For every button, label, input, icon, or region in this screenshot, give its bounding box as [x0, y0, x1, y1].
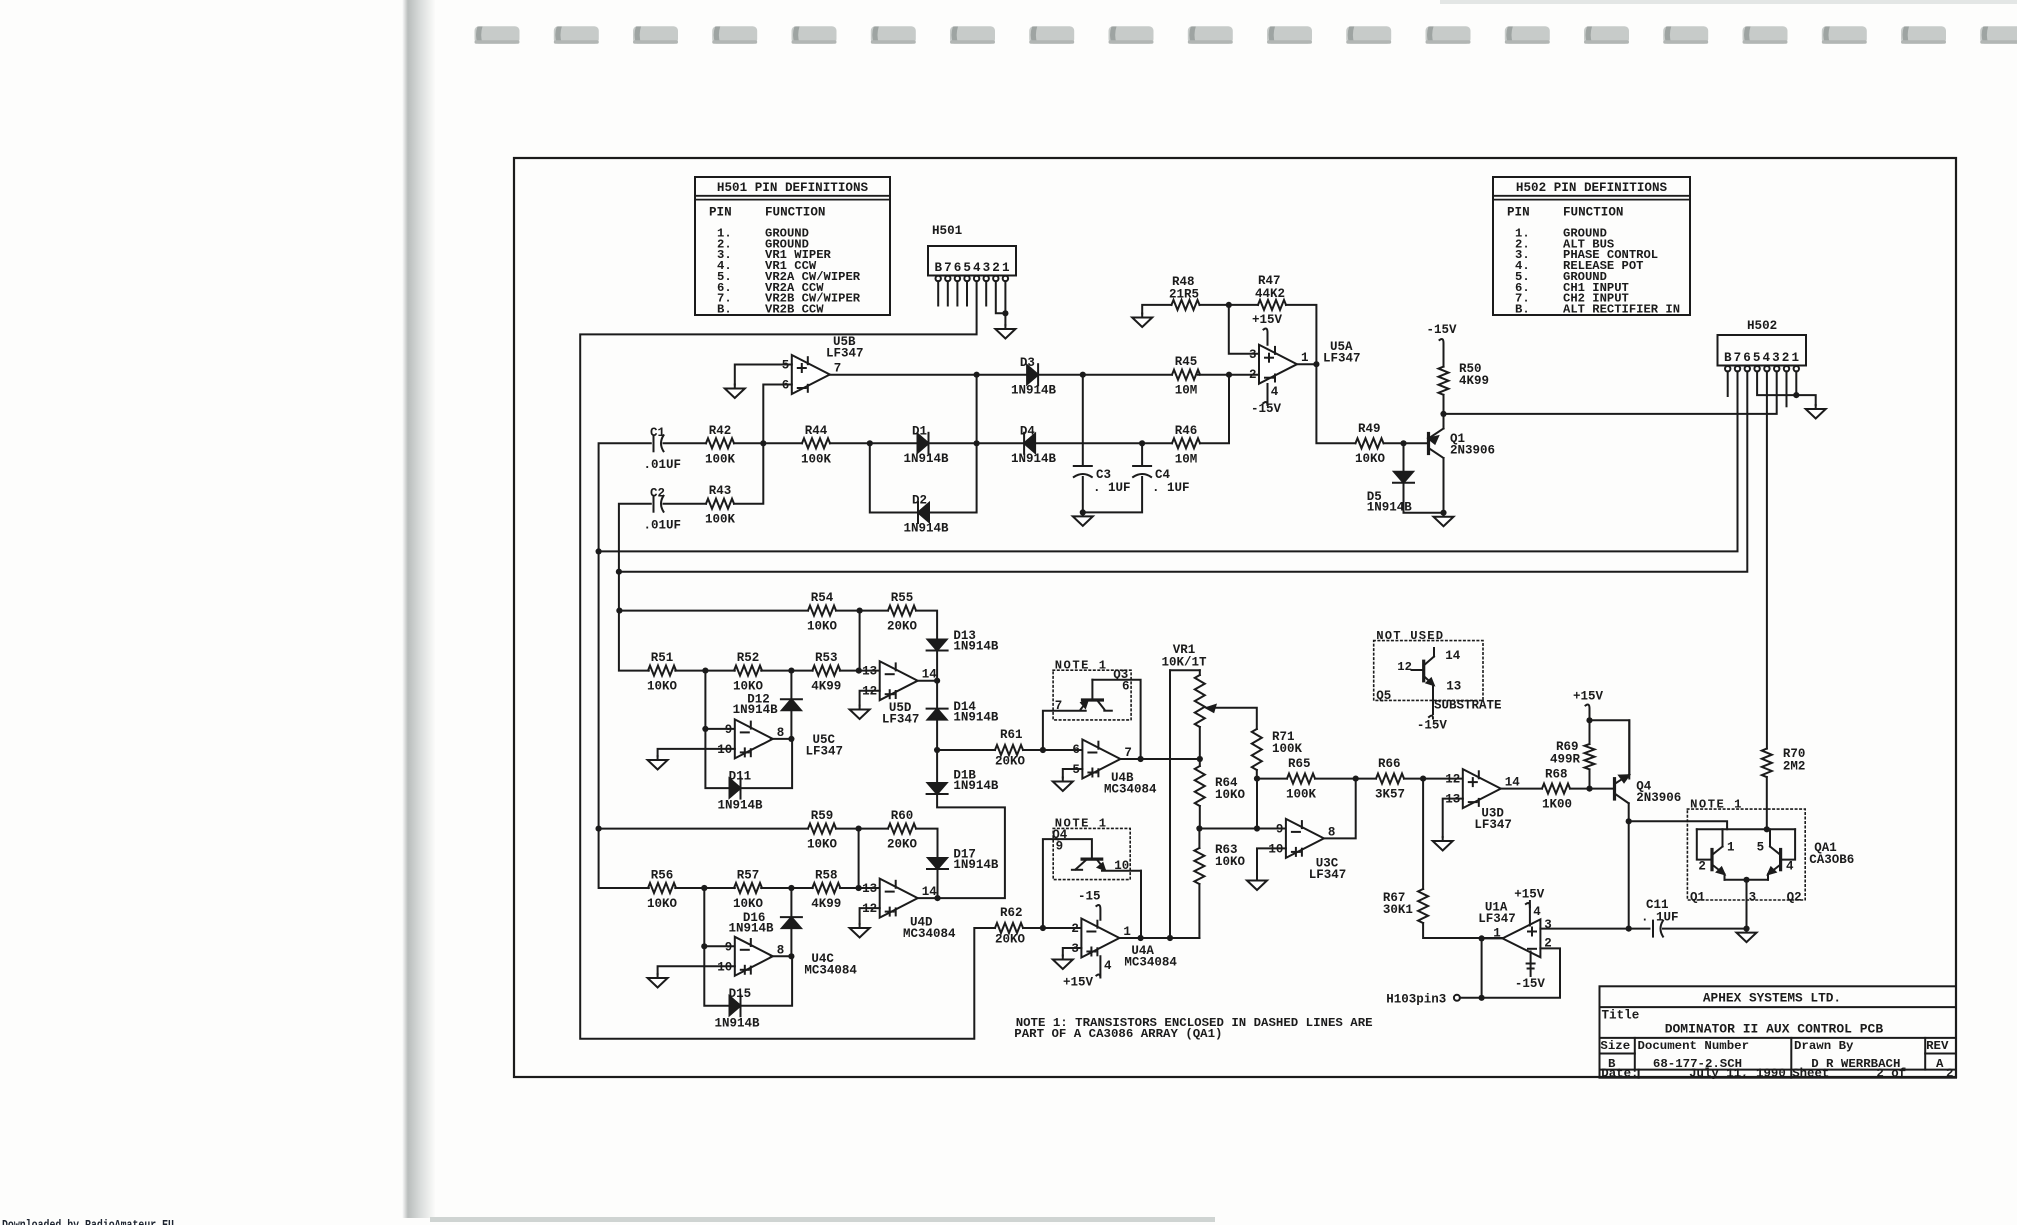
svg-text:3: 3 [1544, 918, 1552, 932]
wire H502 pin 4 down to R70 [1766, 371, 1768, 748]
wire C11 to QA1 pin3 [1663, 928, 1747, 930]
wire junction down to pin13 row [858, 829, 860, 888]
svg-text:1N914B: 1N914B [729, 922, 775, 936]
svg-text:2 of: 2 of [1876, 1066, 1906, 1080]
wire H502 pin 5 to ground [1757, 371, 1816, 405]
wire QA1 top rail [1697, 828, 1795, 830]
wire D12 to U5C output [790, 711, 792, 739]
svg-text:100K: 100K [801, 452, 832, 466]
svg-text:2: 2 [1249, 368, 1257, 382]
svg-text:10KO: 10KO [1215, 855, 1246, 869]
ground H502 [1806, 405, 1826, 419]
wire R48 to R47 [1200, 304, 1259, 306]
diode D11 1N914B [718, 770, 764, 813]
spiral binder holes [475, 26, 2017, 44]
svg-text:-15V: -15V [1427, 323, 1458, 337]
wire D18 loop to U4D output [937, 794, 1005, 898]
wire H501 pin 4 feedback bus to R62 [580, 281, 995, 1039]
wire R66 node down to R67 [1422, 779, 1424, 889]
junction R57/R58 [788, 885, 794, 891]
junction R48/R47/pin3 [1226, 302, 1232, 308]
diode D14 1N914B [927, 700, 999, 725]
ground H501 [995, 325, 1015, 339]
wire D17 to U4D output [937, 869, 939, 898]
wire to U5A pin3 [1229, 305, 1259, 354]
svg-text:LF347: LF347 [1474, 818, 1512, 832]
wire C1 to R42 [664, 442, 707, 444]
svg-text:1K00: 1K00 [1542, 798, 1572, 812]
junction U5C pin9 [702, 726, 708, 732]
wire U4C pin9 [704, 945, 735, 947]
transistor Q5 (array, not used) [1412, 648, 1435, 719]
diode D13 1N914B [927, 629, 999, 654]
op-amp U4C MC34084 [717, 937, 857, 978]
wire U1A pin3 to C11 [1540, 928, 1649, 930]
junction R49/D5 [1400, 440, 1406, 446]
wire left vertical bus C1-R56 [599, 443, 651, 888]
op-amp U4A MC34084 [1071, 919, 1177, 970]
resistor R42 [705, 424, 736, 467]
svg-text:4: 4 [1533, 905, 1541, 919]
svg-text:2M2: 2M2 [1783, 760, 1806, 774]
junction R54/R55 [857, 608, 863, 614]
op-amp U5B LF347 [782, 335, 864, 394]
junction U4A out/Q4 array [1138, 935, 1144, 941]
svg-text:14: 14 [1445, 649, 1461, 663]
svg-text:30K1: 30K1 [1383, 903, 1413, 917]
resistor R71 100K [1252, 729, 1303, 770]
wire QA1 pin3 down [1746, 880, 1748, 929]
op-amp U1A LF347 [1478, 888, 1552, 992]
svg-text:R62: R62 [1000, 906, 1023, 920]
svg-text:LF347: LF347 [882, 713, 920, 727]
ground U5D pin12 [850, 706, 870, 720]
svg-text:R49: R49 [1358, 422, 1381, 436]
svg-text:10M: 10M [1175, 452, 1198, 466]
wire R64 to junction row [1199, 806, 1201, 829]
wire D13 to D14 through output [936, 651, 938, 709]
junction U5C output [788, 736, 794, 742]
wire junction down to pin13 [859, 611, 861, 671]
wire Q3 pin6 to U4B output [1092, 680, 1140, 759]
resistor R49 10K0 [1355, 422, 1386, 466]
resistor R57 [733, 869, 764, 912]
wire left bus to R59 [599, 828, 808, 830]
junction second bus at R54 row [616, 608, 622, 614]
schematic outer border [514, 158, 1956, 1077]
wire to Q3 pin7 [1043, 711, 1086, 750]
svg-text:R44: R44 [805, 424, 828, 438]
resistor R43 [705, 484, 736, 527]
wire R56 to R57 [675, 887, 735, 889]
diode D17 1N914B [927, 848, 999, 873]
svg-text:100K: 100K [1286, 788, 1317, 802]
ground QA1 pin3 [1737, 929, 1757, 943]
svg-text:.01UF: .01UF [644, 519, 682, 533]
wire R58 to U4D pin13 [840, 887, 880, 889]
svg-text:3: 3 [1749, 891, 1757, 905]
svg-text:MC34084: MC34084 [903, 927, 956, 941]
svg-text:1: 1 [1727, 841, 1735, 855]
junction R59/R60 [856, 826, 862, 832]
svg-text:D3: D3 [1020, 356, 1035, 370]
resistor R44 [801, 424, 832, 467]
svg-text:. 1UF: . 1UF [1093, 481, 1131, 495]
svg-text:H501: H501 [932, 224, 963, 238]
potentiometer VR1 10K/1T [1161, 643, 1256, 938]
resistor R45 [1172, 355, 1200, 398]
diode D18 1N914B [927, 769, 999, 795]
svg-text:20KO: 20KO [995, 755, 1026, 769]
wire R44 to R46 row [830, 442, 1172, 444]
svg-text:PIN: PIN [709, 206, 732, 220]
svg-text:1N914B: 1N914B [953, 640, 999, 654]
wire R50 to node [1443, 395, 1445, 414]
op-amp U3D LF347 [1445, 769, 1520, 832]
svg-text:Document Number: Document Number [1638, 1039, 1750, 1053]
diode D1 1N914B [904, 425, 950, 467]
wire U1A output [1482, 937, 1503, 939]
svg-text:4K99: 4K99 [811, 680, 841, 694]
wire U3C pin10 to ground [1257, 848, 1286, 876]
svg-text:Downloaded by RadioAmateur.EU: Downloaded by RadioAmateur.EU [2, 1219, 174, 1226]
svg-text:D4: D4 [1020, 425, 1036, 439]
svg-text:10KO: 10KO [733, 897, 764, 911]
wire to D5 [1403, 443, 1405, 471]
svg-text:3: 3 [1249, 348, 1257, 362]
H502 pin definitions table [1493, 177, 1690, 316]
wire D5 to Q1 emitter node [1404, 484, 1444, 513]
svg-text:APHEX SYSTEMS LTD.: APHEX SYSTEMS LTD. [1703, 991, 1841, 1006]
svg-text:R59: R59 [811, 809, 834, 823]
resistor R68 1K00 [1542, 768, 1572, 812]
svg-text:1N914B: 1N914B [733, 703, 779, 717]
wire U1A pin2 feedback [1482, 948, 1560, 997]
svg-text:. 1UF: . 1UF [1152, 481, 1190, 495]
junction C4 top [1139, 440, 1145, 446]
junction QA1 pin3/C11 [1743, 926, 1749, 932]
svg-text:NOT USED: NOT USED [1376, 629, 1444, 643]
svg-text:100K: 100K [1272, 742, 1303, 756]
svg-text:3K57: 3K57 [1375, 788, 1405, 802]
svg-text:D15: D15 [729, 987, 752, 1001]
H501 pin definitions table [695, 177, 890, 316]
wire U5A output to R49 [1297, 364, 1356, 443]
wire R55 to D13 [916, 611, 937, 640]
resistor R63 10K0 [1194, 843, 1245, 884]
wire R69 to base node [1589, 769, 1591, 788]
junction U4C pin9 [701, 943, 707, 949]
svg-text:R42: R42 [709, 424, 732, 438]
svg-text:ALT RECTIFIER IN: ALT RECTIFIER IN [1563, 302, 1680, 316]
wire Q4 collector down to C11 row [1628, 803, 1630, 928]
junction R64/R63 [1196, 825, 1202, 831]
resistor R51 [647, 651, 678, 694]
power +15V U4A [1063, 956, 1100, 989]
svg-text:1N914B: 1N914B [904, 522, 950, 536]
svg-text:C2: C2 [650, 487, 665, 501]
ground U4A pin3 [1053, 956, 1073, 970]
ground U5B pin5 [725, 385, 745, 399]
resistor R53 [811, 651, 841, 694]
svg-text:Q5: Q5 [1376, 689, 1391, 703]
svg-text:4: 4 [1271, 385, 1279, 399]
svg-text:10KO: 10KO [1215, 788, 1246, 802]
svg-text:D2: D2 [912, 494, 927, 508]
junction R70/QA1 [1764, 826, 1770, 832]
wire D11 to output [741, 739, 793, 788]
svg-text:D11: D11 [729, 770, 752, 784]
wire bus2 to R54 [619, 610, 808, 612]
transistor QA1-Q1 (array) [1712, 829, 1725, 880]
svg-text:1N914B: 1N914B [1011, 452, 1057, 466]
bottom page edge shadow [430, 1217, 1215, 1222]
svg-text:1N914B: 1N914B [953, 779, 999, 793]
wire R59 to R60 [836, 828, 888, 830]
wire U5D output [918, 680, 937, 682]
wire Q1 top to R50 node [1443, 414, 1445, 429]
resistor R60 [887, 809, 918, 852]
svg-text:H103pin3: H103pin3 [1386, 993, 1446, 1007]
svg-text:MC34084: MC34084 [804, 964, 857, 978]
svg-text:LF347: LF347 [826, 347, 864, 361]
wire R61 to U4B pin6 [1023, 749, 1082, 751]
junction U5D output [934, 678, 940, 684]
junction QA1 emitters [1743, 877, 1749, 883]
svg-text:1N914B: 1N914B [715, 1017, 761, 1031]
svg-text:MC34084: MC34084 [1104, 783, 1157, 797]
junction R68/R69 [1586, 786, 1592, 792]
svg-text:R52: R52 [737, 651, 760, 665]
svg-text:7: 7 [834, 362, 842, 376]
svg-text:R43: R43 [709, 484, 732, 498]
wire R46 to R45 output node [1200, 375, 1229, 444]
junction R56/R57 [701, 885, 707, 891]
junction U1A output [1479, 935, 1485, 941]
wire R51 to R52 [675, 670, 735, 672]
junction R61/Q3 [1040, 747, 1046, 753]
svg-text:LF347: LF347 [806, 745, 844, 759]
top right faint scanner streak [1440, 0, 2017, 4]
ground U4D pin12 [850, 924, 870, 938]
svg-text:-15: -15 [1078, 890, 1101, 904]
wire R60 to D17 [916, 829, 938, 858]
diode D15 1N914B [715, 987, 761, 1031]
svg-text:PIN: PIN [1507, 206, 1530, 220]
svg-text:499R: 499R [1550, 753, 1581, 767]
op-amp U5D LF347 [862, 661, 937, 726]
power -15 U4A [1078, 890, 1101, 920]
wire R52 to R53 [761, 670, 813, 672]
wire U4B pin5 to ground [1063, 769, 1083, 778]
junction node A2 [1080, 372, 1086, 378]
svg-text:R54: R54 [811, 591, 834, 605]
svg-text:MC34084: MC34084 [1124, 956, 1177, 970]
wire H501 pin 5 stub [966, 281, 968, 305]
wire C3/C4 bottoms joined [1083, 477, 1142, 512]
diode D12 1N914B [781, 699, 802, 710]
svg-text:10KO: 10KO [807, 620, 838, 634]
wire H103pin3 to node [1460, 997, 1482, 999]
connector H501 [928, 224, 1016, 281]
wire array Q4 pin10 to U4A output [1140, 871, 1142, 938]
wire D14 down through R61 node to D18 [936, 720, 938, 783]
op-amp U3C LF347 [1268, 819, 1346, 882]
wire junction down to D12 [790, 671, 792, 700]
junction U4A out/VR1 top [1167, 935, 1173, 941]
wire R42 to R44 [734, 442, 802, 444]
junction C3 ground node [1080, 509, 1086, 515]
svg-text:R65: R65 [1288, 757, 1311, 771]
svg-text:R46: R46 [1175, 424, 1198, 438]
svg-text:Date:: Date: [1601, 1066, 1638, 1080]
dashed box NOT USED (Q5) [1374, 629, 1502, 733]
wire U4C output [771, 955, 792, 957]
wire H501 pin 1 down [1004, 281, 1006, 325]
svg-text:5: 5 [1757, 841, 1765, 855]
svg-text:+15V: +15V [1252, 313, 1283, 327]
wire U3D output to R68 [1501, 788, 1542, 790]
svg-text:9: 9 [1276, 822, 1284, 836]
wire R45 to U5A pin2 [1198, 374, 1259, 376]
capacitor C3 .1UF [1074, 466, 1131, 495]
svg-text:10KO: 10KO [733, 680, 764, 694]
svg-text:10KO: 10KO [807, 838, 838, 852]
wire H501 pin 7 stub [947, 281, 949, 305]
capacitor C4 .1UF [1133, 466, 1189, 495]
wire +15V to Q4 emitter [1590, 720, 1630, 778]
wire H502 pin 6 bus to left block [619, 371, 1747, 571]
power +15V U5A [1252, 313, 1283, 345]
wire node A2 down to C3 [1082, 375, 1084, 466]
svg-text:R53: R53 [815, 651, 838, 665]
wire output down to feedback [1481, 938, 1483, 997]
svg-text:D1: D1 [912, 425, 927, 439]
svg-text:A: A [1936, 1057, 1944, 1071]
diode D5 1N914B [1367, 472, 1414, 515]
svg-text:+15V: +15V [1573, 690, 1604, 704]
diode D2 1N914B [904, 494, 950, 536]
resistor R46 [1172, 424, 1200, 467]
junction pin13 node [856, 668, 862, 674]
svg-text:+15V: +15V [1514, 888, 1545, 902]
wire R68 to Q4 base [1570, 788, 1615, 790]
junction D2 left branch [867, 440, 873, 446]
junction U5A output [1313, 361, 1319, 367]
svg-text:. 1UF: . 1UF [1641, 911, 1679, 925]
wire D2 left loop [870, 443, 919, 512]
svg-text:9: 9 [725, 723, 733, 737]
svg-text:C4: C4 [1155, 468, 1171, 482]
svg-text:C1: C1 [650, 426, 665, 440]
junction U4B out/Q3 [1138, 756, 1144, 762]
svg-text:LF347: LF347 [1309, 868, 1347, 882]
svg-text:20KO: 20KO [887, 838, 918, 852]
transistor Q4 (array) [1072, 859, 1141, 871]
svg-text:1N914B: 1N914B [953, 711, 999, 725]
svg-text:13: 13 [862, 665, 877, 679]
terminal H103pin3 [1454, 995, 1460, 1001]
resistor R55 [887, 591, 918, 634]
svg-text:6: 6 [1072, 743, 1080, 757]
svg-text:PART OF A CA3086 ARRAY (QA1): PART OF A CA3086 ARRAY (QA1) [1014, 1027, 1222, 1041]
svg-text:1: 1 [1123, 925, 1131, 939]
svg-text:10KO: 10KO [647, 897, 678, 911]
wire QA1 right base loop [1781, 829, 1796, 859]
svg-text:R66: R66 [1378, 757, 1401, 771]
dashed box NOTE 1 (Q4 of CA3086) [1052, 817, 1130, 880]
svg-text:R57: R57 [737, 869, 760, 883]
power -15V U5A [1251, 384, 1282, 416]
svg-text:14: 14 [1505, 776, 1521, 790]
svg-text:13: 13 [1446, 680, 1461, 694]
wire U3C output up to R65/R66 [1324, 779, 1356, 839]
wire U5C pin9 [705, 728, 734, 730]
svg-text:4K99: 4K99 [811, 897, 841, 911]
svg-text:7: 7 [1124, 746, 1132, 760]
wire U3D pin13 to ground [1443, 799, 1463, 837]
wire U5D node to R61 [937, 749, 995, 751]
wire R47 feedback to output [1286, 305, 1316, 364]
svg-text:1N914B: 1N914B [953, 858, 999, 872]
wire H502 pin 3 to Q1 node [1444, 371, 1777, 414]
ground U4B pin5 [1053, 778, 1073, 792]
resistor R70 2M2 [1762, 749, 1772, 778]
op-amp U5A LF347 [1249, 340, 1361, 384]
wire U4D pin12 to ground [860, 908, 880, 924]
junction R65/R66/U3C out [1353, 776, 1359, 782]
resistor R66 3K57 [1375, 757, 1405, 802]
svg-text:H501 PIN DEFINITIONS: H501 PIN DEFINITIONS [717, 181, 869, 195]
wire C2 to R43 [664, 503, 707, 505]
svg-text:+15V: +15V [1063, 976, 1094, 990]
junction R61 row [934, 747, 940, 753]
ground C3/C4 [1073, 512, 1093, 526]
svg-text:LF347: LF347 [1478, 912, 1516, 926]
diode D16 1N914B [781, 917, 802, 928]
wire R71 node down [1256, 779, 1258, 829]
capacitor C1 .01UF [644, 426, 682, 472]
wire U4B output row [1120, 758, 1199, 760]
svg-text:1N914B: 1N914B [1011, 384, 1057, 398]
svg-text:6: 6 [1122, 680, 1130, 694]
wire H502 pin 1 stub [1795, 371, 1797, 395]
svg-text:2: 2 [1698, 860, 1706, 874]
svg-text:44K2: 44K2 [1255, 287, 1285, 301]
svg-text:R51: R51 [651, 651, 674, 665]
wire U5B output row [830, 374, 1172, 376]
diode D3 1N914B [1011, 356, 1057, 398]
wire H501 pin 2 to pin 1 [996, 281, 1006, 313]
wire H501 pin 3 stub [985, 281, 987, 305]
wire to array Q4 pin9/base [1043, 839, 1092, 928]
svg-text:July 11, 1990: July 11, 1990 [1689, 1066, 1786, 1080]
junction bus2 left [616, 569, 622, 575]
wire H501 pin 8 stub [937, 281, 939, 305]
svg-text:NOTE 1: NOTE 1 [1055, 659, 1108, 673]
svg-text:10KO: 10KO [1355, 452, 1386, 466]
svg-text:10M: 10M [1175, 384, 1198, 398]
svg-text:1N914B: 1N914B [904, 452, 950, 466]
svg-text:Sheet: Sheet [1792, 1066, 1829, 1080]
junction Q1 emitter/ground [1440, 510, 1446, 516]
wire U5B pin6 / R43 junction vertical [734, 385, 792, 504]
junction R51/R52 [702, 668, 708, 674]
junction R62/Q4 array pin9 [1040, 925, 1046, 931]
svg-text:2: 2 [1071, 922, 1079, 936]
svg-text:R55: R55 [891, 591, 914, 605]
dashed box NOTE 1 (Q3 of CA3086) [1053, 659, 1131, 720]
